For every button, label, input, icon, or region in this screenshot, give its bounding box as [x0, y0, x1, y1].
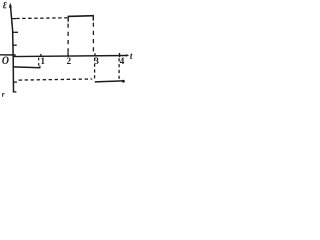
stray scan mark bottom-left corner — [2, 93, 4, 97]
t-axis tick at t=3 — [94, 53, 96, 56]
y-axis arrowhead — [9, 3, 12, 8]
svg-text:2: 2 — [67, 56, 72, 66]
pulse left edge dashed drop to axis at t=2 — [67, 24, 69, 56]
ink blob at right end of lower segment — [122, 80, 125, 83]
t-axis tick at t=2 — [67, 52, 69, 56]
y-axis tick at -2 level — [13, 81, 17, 83]
t-axis tick at t=4 — [119, 53, 121, 57]
background — [0, 0, 147, 105]
t-axis main line — [13, 56, 127, 57]
y-axis tick at +1 level — [13, 44, 17, 46]
dashed vertical below axis at t=4 — [118, 58, 120, 81]
svg-text:1: 1 — [41, 56, 46, 66]
y-axis tick at -3 level — [13, 91, 16, 93]
small upturn at end of negative segment — [39, 66, 41, 68]
pulse right edge solid upper part — [92, 16, 94, 21]
t-axis left stub — [0, 54, 16, 56]
dashed level line at +3 from axis to t=2 — [16, 17, 67, 20]
y-axis (vertical epsilon axis, slightly tilted as in scan) — [10, 5, 13, 93]
dashed riser from axis down to -1 level at t=1 — [38, 58, 40, 68]
y-axis tick at +3 level — [12, 18, 16, 20]
waveform: solid negative segment from t=0 to t=1 — [13, 66, 40, 69]
dashed level line at -2 from near axis to t=3 — [19, 79, 93, 80]
t-axis tick at t=1 — [40, 54, 42, 57]
dashed vertical below axis at t=3 — [94, 58, 96, 81]
svg-text:ε: ε — [3, 0, 7, 12]
svg-text:4: 4 — [120, 56, 125, 66]
waveform: solid negative segment between t=3 and t=4 — [95, 81, 123, 82]
pulse right edge dashed drop to axis at t=3 — [92, 23, 94, 56]
waveform: solid pulse top between t=2 and t=3 — [68, 15, 94, 18]
svg-text:O: O — [2, 54, 9, 67]
t-axis arrowhead — [126, 54, 129, 57]
pulse left edge solid upper part — [67, 16, 69, 22]
y-axis tick at +2 level — [13, 31, 18, 33]
